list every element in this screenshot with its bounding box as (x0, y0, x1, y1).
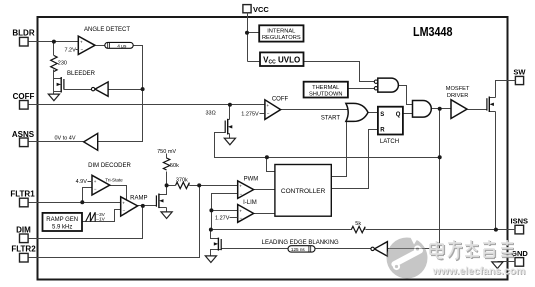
reference 1.27V (215, 216, 237, 222)
node drive AND output (438, 107, 442, 111)
svg-text:+: + (267, 103, 270, 108)
svg-text:DRIVER: DRIVER (447, 93, 469, 99)
wire controller START output to OR gate (332, 120, 347, 177)
svg-text:COFF: COFF (13, 92, 35, 101)
svg-text:I-LIM: I-LIM (243, 200, 257, 206)
svg-text:−: − (240, 215, 243, 220)
node COFF/33ohm FET (228, 103, 232, 107)
svg-text:CONTROLLER: CONTROLLER (281, 188, 326, 195)
resistor 370k (176, 178, 190, 189)
wire ISNS sense line (211, 229, 352, 231)
buffer ASNS 0V to 4V (54, 133, 97, 150)
wire VCC pin down into IC (247, 13, 249, 62)
svg-text:ANGLE DETECT: ANGLE DETECT (84, 27, 130, 33)
sawtooth symbol (86, 212, 106, 223)
wire VCC to UVLO (248, 61, 261, 63)
comparator COFF (265, 96, 289, 119)
svg-text:−: − (81, 47, 84, 52)
wire bleeder inverter output to bleeder FET gate (64, 89, 92, 91)
wire thermal shutdown to protection gate (349, 88, 375, 90)
wire one-shot output node down (98, 46, 143, 142)
svg-text:BLDR: BLDR (12, 29, 34, 38)
box THERMAL SHUTDOWN (304, 82, 348, 98)
svg-text:−: − (94, 187, 97, 192)
gate START OR (321, 103, 368, 121)
comparator ANGLE DETECT (78, 27, 130, 55)
svg-text:7.2V: 7.2V (64, 47, 76, 53)
gate drive AND (413, 101, 432, 118)
svg-text:FLTR1: FLTR1 (10, 190, 35, 199)
wire PWM minus input from current sense (212, 194, 238, 230)
wire gate-drive feedback vertical (439, 109, 441, 250)
svg-text:−: − (267, 111, 270, 116)
svg-text:www.elecfans.com: www.elecfans.com (432, 266, 526, 277)
wire FLTR1 to tri-state comparator input (83, 188, 93, 203)
node 370k/FLTR2 (197, 183, 201, 187)
svg-text:1.275V: 1.275V (241, 112, 259, 118)
svg-text:125 ns: 125 ns (291, 247, 305, 252)
wire 33ohm FET drain from COFF line (229, 105, 231, 120)
one-shot 4us (96, 42, 134, 49)
node 50k/370k (165, 183, 169, 187)
svg-text:−: − (123, 208, 126, 213)
comparator PWM (238, 176, 259, 198)
pin FLTR2 (11, 245, 36, 262)
comparator RAMP (121, 195, 148, 216)
reference 7.2V (64, 47, 78, 53)
transistor dim FET (156, 194, 166, 212)
node FLTR1 branch (80, 200, 84, 204)
svg-text:FLTR2: FLTR2 (11, 245, 36, 254)
node gate-drive branch (438, 155, 442, 159)
wire ISNS line to ISNS pin (366, 229, 516, 231)
wire PWM output to controller (254, 189, 275, 191)
wire I-LIM plus input (212, 210, 238, 212)
wire drive AND output to MOSFET driver (432, 108, 452, 110)
wire COFF pin to COFF comparator (29, 104, 265, 106)
comparator I-LIM (238, 200, 257, 222)
ground LEB FET (205, 256, 216, 263)
wire DIM pin to ramp comparator output (29, 206, 143, 239)
svg-text:START: START (321, 116, 340, 122)
wire LEB FET gate to blanking one-shot (222, 248, 289, 250)
box VCC UVLO (260, 52, 304, 66)
pin VCC (243, 5, 270, 14)
pin SW (513, 68, 526, 85)
watermark logo circle (387, 236, 428, 278)
svg-text:LM3448: LM3448 (413, 24, 453, 39)
wire BLDR pin to angle-detect comparator (29, 41, 79, 43)
svg-text:S: S (380, 112, 384, 118)
node controller branch (265, 155, 269, 159)
pin COFF (13, 92, 35, 109)
resistor 50k (163, 158, 179, 170)
svg-text:+: + (239, 208, 242, 213)
svg-text:DIM: DIM (16, 225, 31, 234)
box RAMP GEN (43, 213, 83, 231)
wire 370k left joint (167, 185, 176, 187)
svg-text:−: − (240, 192, 243, 197)
resistor 5k (351, 221, 365, 233)
wire ASNS buffer output to ASNS pin (29, 141, 84, 143)
pin GND (511, 249, 528, 266)
node ramp output/DIM (141, 204, 145, 208)
wire ramp comparator output to dim FET gate (138, 205, 157, 207)
wire OR output to latch S input (369, 112, 378, 114)
pin ISNS (511, 217, 529, 234)
node I-LIM tap (209, 208, 213, 212)
svg-text:+: + (80, 40, 83, 45)
svg-text:SW: SW (513, 68, 526, 77)
wire LEB inverter input from gate-drive (388, 248, 440, 250)
svg-text:COFF: COFF (272, 96, 289, 102)
reference 1.275V (241, 112, 264, 118)
wire blanking one-shot to inverter (316, 248, 371, 250)
wire FLTR1 pin to ramp comparator (29, 202, 121, 204)
ground GND pin (492, 262, 503, 269)
node one-shot/bleeder branch (141, 87, 145, 91)
one-shot 125ns blanking (288, 246, 315, 252)
svg-text:DIM DECODER: DIM DECODER (88, 163, 131, 169)
svg-text:PWM: PWM (244, 176, 259, 182)
svg-text:5.9 kHz: 5.9 kHz (52, 225, 72, 231)
svg-text:THERMAL: THERMAL (312, 85, 339, 91)
watermark chinese characters (430, 240, 513, 259)
svg-text:4 μs: 4 μs (117, 43, 127, 49)
resistor 230 (51, 56, 67, 72)
svg-text:ASNS: ASNS (12, 130, 35, 139)
svg-text:LEADING EDGE BLANKING: LEADING EDGE BLANKING (262, 240, 339, 246)
ground bleeder (48, 94, 59, 101)
svg-text:0V to 4V: 0V to 4V (54, 136, 75, 142)
svg-text:750 mV: 750 mV (157, 149, 176, 155)
wire gate-drive to 33ohm FET gate (215, 133, 440, 158)
svg-text:+: + (94, 179, 97, 184)
gate protection AND with inverted inputs (374, 78, 398, 92)
inverter LEB (371, 242, 388, 257)
pin ASNS (12, 130, 35, 147)
svg-text:ISNS: ISNS (511, 217, 529, 226)
ground dim FET (161, 212, 172, 219)
wire VCC to internal regulators (248, 32, 260, 34)
svg-text:230: 230 (58, 61, 67, 67)
box INTERNAL REGULATORS (259, 25, 303, 41)
wire LEB FET drain (211, 230, 219, 239)
buffer MOSFET DRIVER (446, 86, 470, 118)
wire 370k to PWM comparator (190, 185, 238, 187)
wire ramp generator to ramp comparator (83, 210, 121, 222)
wire COFF comparator output to start OR gate (281, 109, 350, 111)
svg-text:1.27V: 1.27V (215, 216, 230, 222)
wire UVLO output to protection gate (304, 62, 375, 82)
node sense line left (209, 228, 213, 232)
pin BLDR (12, 29, 34, 46)
svg-text:4.9V: 4.9V (76, 179, 88, 185)
svg-text:370k: 370k (176, 178, 188, 184)
watermark chinese characters shadow (431, 241, 514, 260)
comparator tri-state (92, 175, 123, 195)
node VCC branch (245, 31, 249, 35)
ground 33ohm FET (224, 138, 235, 145)
pin FLTR1 (10, 190, 35, 207)
svg-text:SHUTDOWN: SHUTDOWN (309, 92, 343, 98)
transistor power FET (487, 97, 496, 113)
wire GND pin to ground (498, 261, 516, 263)
svg-text:LATCH: LATCH (380, 139, 399, 145)
svg-text:BLEEDER: BLEEDER (67, 71, 96, 77)
transistor LEB FET (214, 238, 222, 251)
wire power FET source to ISNS line (495, 112, 497, 230)
transistor 33ohm FET (225, 119, 232, 135)
node BLDR/bleeder resistor (52, 40, 56, 44)
wire LEB FET source to ground (211, 250, 219, 256)
wire one-shot node to bleeder inverter input (109, 89, 143, 91)
wire power FET drain to SW pin (496, 81, 516, 98)
wire I-LIM output to controller (254, 213, 275, 215)
svg-text:VCC: VCC (253, 5, 269, 14)
svg-text:REGULATORS: REGULATORS (262, 35, 301, 41)
wire FLTR2 pin to 370k node (29, 186, 200, 258)
svg-text:INTERNAL: INTERNAL (267, 29, 295, 35)
wire 50k bottom to dim FET drain (159, 172, 167, 195)
wire controller reset output to latch R input (332, 130, 378, 189)
wire protection gate output to drive AND gate (399, 86, 413, 105)
latch SR (378, 107, 403, 146)
transistor bleeder FET (54, 77, 64, 93)
inverter bleeder gate (91, 82, 108, 96)
wire bleeder resistor to FET (53, 42, 55, 95)
svg-text:50k: 50k (170, 163, 179, 169)
wire gate-drive branch into controller (267, 158, 275, 172)
wire 33ohm FET source to ground (229, 134, 231, 139)
svg-text:5k: 5k (355, 221, 361, 227)
svg-text:RAMP: RAMP (130, 195, 147, 201)
reference 4.9V (76, 179, 93, 185)
svg-text:Tri-State: Tri-State (105, 178, 123, 183)
wire MOSFET driver output to power FET gate (468, 109, 487, 111)
node power FET source/ISNS (494, 228, 498, 232)
box CONTROLLER (275, 165, 331, 217)
svg-text:MOSFET: MOSFET (446, 86, 470, 92)
svg-text:–1V: –1V (96, 217, 105, 223)
wire 750mV through 50k node (166, 154, 168, 159)
wire tri-state output to ramp comparator node (110, 186, 127, 200)
svg-text:R: R (380, 127, 385, 133)
pin DIM (16, 225, 31, 242)
svg-text:Q: Q (396, 112, 401, 118)
wire latch Q output to drive AND gate (403, 113, 413, 115)
svg-text:33Ω: 33Ω (206, 110, 216, 116)
svg-text:+: + (122, 200, 125, 205)
svg-text:+: + (239, 184, 242, 189)
svg-text:RAMP GEN: RAMP GEN (46, 217, 78, 223)
